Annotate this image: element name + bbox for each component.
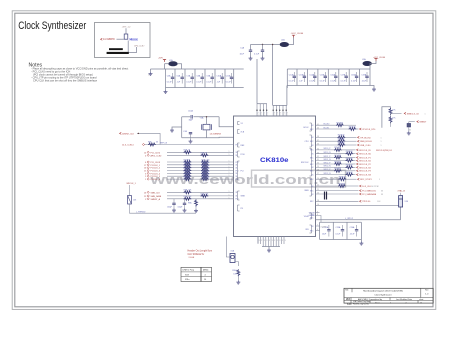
svg-text:X 48M: X 48M — [321, 226, 327, 228]
svg-text:3: 3 — [269, 240, 270, 242]
svg-text:BCLK1: BCLK1 — [324, 127, 330, 129]
ground — [261, 57, 265, 61]
svg-text:SRCCLK_N2: SRCCLK_N2 — [359, 167, 372, 169]
ground — [172, 209, 176, 213]
wire (down to U1A VDD bus) — [272, 45, 274, 106]
wire (bank column 2) — [296, 69, 298, 86]
svg-text:1: 1 — [229, 175, 230, 177]
svg-text:14: 14 — [144, 152, 146, 154]
wire (PCICLK_6 to U1A) — [167, 178, 234, 180]
svg-text:BCLK0: BCLK0 — [324, 124, 330, 126]
wire — [409, 121, 415, 123]
bar (legend thick trace A) — [109, 48, 123, 50]
svg-text:PCICLK_1: PCICLK_1 — [151, 165, 161, 167]
svg-text:1: 1 — [229, 151, 230, 153]
svg-text:6: 6 — [317, 229, 318, 231]
svg-text:SMBDT_A: SMBDT_A — [151, 198, 161, 201]
svg-text:7: 7 — [317, 225, 318, 227]
svg-text:1: 1 — [229, 178, 230, 180]
svg-text:GND48: GND48 — [309, 215, 315, 217]
svg-text:Clock Synthesizer: Clock Synthesizer — [374, 293, 391, 296]
svg-text:CPU CLK that can be shut off t: CPU CLK that can be shut off thru the SM… — [33, 78, 98, 82]
svg-text:WFCLK_1: WFCLK_1 — [127, 183, 137, 185]
watermark box — [252, 170, 346, 187]
power flag — [163, 60, 166, 62]
node SRCCLK_P2 — [357, 163, 359, 165]
svg-text:4: 4 — [261, 115, 262, 117]
U1A VDD top bus A — [257, 103, 267, 105]
ground (bank left) — [150, 69, 152, 72]
svg-text:100pF: 100pF — [178, 206, 183, 208]
node USB_CLK0 — [358, 144, 360, 146]
U1A top pin 6 — [276, 105, 278, 116]
svg-text:0.1uF: 0.1uF — [289, 80, 295, 82]
svg-text:1: 1 — [280, 115, 281, 117]
node 14MHZ_CLK — [120, 132, 122, 134]
svg-text:0.1uF: 0.1uF — [226, 81, 232, 83]
svg-text:SRC3_P: SRC3_P — [324, 169, 332, 171]
junction — [262, 44, 263, 45]
U1A top pin 1 — [256, 104, 258, 116]
wire — [145, 144, 234, 146]
power flag — [292, 35, 295, 37]
ground — [408, 127, 410, 131]
wire (bank column 6) — [338, 69, 340, 86]
svg-text:SRC0_P: SRC0_P — [324, 148, 332, 150]
svg-text:XL: XL — [236, 168, 238, 170]
svg-text:Rev: Rev — [425, 290, 428, 292]
wire — [356, 128, 359, 130]
svg-text:17: 17 — [144, 165, 146, 167]
wire (crystal loop top) — [182, 116, 191, 118]
svg-text:USB_CLK0: USB_CLK0 — [360, 145, 371, 147]
svg-text:3: 3 — [266, 240, 267, 242]
svg-text:XL: XL — [236, 152, 238, 154]
svg-text:1: 1 — [229, 195, 230, 197]
U1A pin 34 (right) — [316, 149, 335, 151]
svg-text:4: 4 — [145, 155, 146, 157]
wire — [400, 193, 402, 196]
wire — [390, 122, 392, 127]
U1A pin GND48 — [316, 216, 322, 223]
wire (bank column 9) — [369, 69, 371, 86]
U1A bottom pin 11 — [283, 237, 285, 245]
svg-text:1: 1 — [274, 115, 275, 117]
svg-text:0.1uF: 0.1uF — [206, 81, 212, 83]
svg-text:1: 1 — [229, 163, 230, 165]
svg-text:sheet: sheet — [419, 298, 424, 301]
capacitor C3A — [173, 199, 175, 203]
capacitor C25A — [408, 122, 410, 124]
wire (PCICLK_4 to U1A) — [167, 172, 234, 174]
wire (VDD feed right) — [286, 86, 288, 106]
svg-text:SRC2_N: SRC2_N — [324, 166, 332, 168]
svg-text:3: 3 — [274, 240, 275, 242]
svg-text:Fastest_City (XXX): Fastest_City (XXX) — [353, 303, 369, 306]
svg-text:+VCC_CLK66: +VCC_CLK66 — [373, 57, 385, 59]
svg-text:3: 3 — [145, 173, 146, 175]
op IC U1A CK810e body — [234, 116, 316, 237]
node SRCCLK_P1 — [357, 157, 359, 159]
U1A pin 33 (right) — [316, 153, 346, 155]
svg-text:1: 1 — [425, 113, 426, 115]
svg-text:1: 1 — [229, 166, 230, 168]
U1A bottom pin 10 — [280, 237, 282, 245]
U1A pin 27 (right) — [316, 174, 346, 176]
svg-text:0.1uF: 0.1uF — [351, 80, 357, 82]
U1A VDD top bus B — [273, 104, 287, 106]
svg-text:SMB_CLK: SMB_CLK — [151, 192, 161, 194]
svg-text:3: 3 — [285, 240, 286, 242]
node 14.318MHz — [101, 38, 103, 40]
svg-text:32: 32 — [317, 156, 319, 158]
svg-text:PCICLK_3: PCICLK_3 — [151, 171, 161, 173]
svg-text:1: 1 — [229, 154, 230, 156]
svg-text:ITPCLK0: ITPCLK0 — [362, 201, 371, 203]
svg-text:4: 4 — [390, 302, 391, 304]
svg-text:15: 15 — [420, 302, 422, 304]
node ITPCLK — [316, 200, 359, 202]
wire (column 1) — [319, 222, 321, 239]
U1A bottom pin 6 — [270, 237, 272, 247]
svg-text:25: 25 — [144, 196, 146, 198]
svg-text:SRCCLK_N0: SRCCLK_N0 — [359, 154, 372, 156]
svg-text:14.3_CLK14: 14.3_CLK14 — [122, 144, 134, 146]
wire (14MHz link) — [137, 133, 160, 144]
wire (bank column 4) — [194, 69, 196, 88]
capacitor C7A (shunt) — [190, 134, 192, 138]
U1A pin group PCI0 (left) — [238, 151, 240, 157]
wire — [130, 204, 197, 213]
wire — [353, 174, 356, 176]
svg-text:2: 2 — [145, 176, 146, 178]
svg-text:C10A: C10A — [188, 110, 193, 113]
wire — [391, 112, 402, 114]
U1A pin 38 (right) — [316, 136, 338, 138]
wire — [125, 28, 127, 34]
svg-text:1: 1 — [277, 115, 278, 117]
U1A bottom pin 8 — [275, 237, 277, 247]
svg-text:XL: XL — [236, 196, 238, 198]
wire (bank column 7) — [224, 69, 226, 88]
wire (crystal loop left) — [181, 117, 183, 138]
svg-text:VIA: VIA — [346, 299, 350, 301]
svg-text:0.1uF: 0.1uF — [320, 80, 326, 82]
wire — [390, 113, 392, 116]
svg-text:33: 33 — [381, 191, 383, 193]
svg-text:PCI_CLKF: PCI_CLKF — [151, 162, 161, 164]
svg-text:9: 9 — [317, 211, 318, 213]
svg-text:BCLK: BCLK — [304, 127, 310, 129]
wire (U1A to X2A) — [257, 237, 259, 244]
svg-text:0.1uF: 0.1uF — [309, 80, 315, 82]
U1A pin 24 (right) — [316, 178, 339, 180]
svg-text:SMBDT: SMBDT — [419, 122, 427, 124]
svg-text:SRCCLK_P2: SRCCLK_P2 — [359, 164, 372, 166]
svg-text:SRC2_P: SRC2_P — [324, 162, 332, 164]
svg-text:15: 15 — [144, 171, 146, 173]
wire — [237, 276, 239, 280]
wire (OSC to XTAL_B) — [316, 204, 401, 206]
svg-text:41: 41 — [317, 124, 319, 126]
U1A pin 32 (right) — [316, 157, 335, 159]
wire (crystal loop right) — [219, 117, 233, 127]
svg-text:PCI0: PCI0 — [241, 154, 245, 156]
U1A bottom pin 2 — [260, 237, 262, 245]
svg-text:CK810e: CK810e — [260, 157, 289, 164]
U1A top pin 5 — [272, 105, 274, 116]
wire — [341, 170, 356, 172]
svg-text:8: 8 — [317, 214, 318, 216]
svg-text:5: 5 — [145, 199, 146, 201]
svg-text:SRCCLK_N1: SRCCLK_N1 — [359, 161, 372, 163]
U1A top pin 4 — [266, 104, 268, 116]
sheet inner border — [15, 13, 433, 307]
U1A top pin 8 — [282, 105, 284, 116]
ground — [236, 281, 240, 285]
svg-text:XXX: XXX — [185, 274, 190, 276]
wire (bank column 5) — [204, 69, 206, 88]
svg-text:CPUCLK_DP0: CPUCLK_DP0 — [362, 129, 376, 131]
wire — [353, 166, 356, 168]
svg-text:APCI_CLK0: APCI_CLK0 — [151, 154, 163, 157]
wire (PCICLK_1 to U1A) — [167, 164, 234, 166]
wire — [345, 185, 359, 187]
svg-text:SRC3_N: SRC3_N — [324, 173, 332, 175]
svg-text:4: 4 — [267, 115, 268, 117]
ground — [183, 209, 187, 213]
U1A pin 28 (right) — [316, 170, 335, 172]
wire (bank column 2) — [174, 69, 176, 88]
node 14.3_CLK — [360, 185, 362, 187]
wire — [316, 225, 320, 227]
wire (column 3) — [346, 222, 348, 239]
node SMB_BCLK0 — [358, 140, 360, 142]
svg-text:3: 3 — [279, 240, 280, 242]
wire (bank column 4) — [317, 69, 319, 86]
ground (bank bottom) — [165, 88, 167, 91]
svg-text:4: 4 — [264, 115, 265, 117]
U1A pin group SMB (left) — [238, 191, 240, 200]
U1A bottom pin 1 — [257, 237, 259, 245]
wire L_3PI3.2 — [316, 219, 401, 221]
svg-text:3: 3 — [272, 240, 273, 242]
node SRCCLK_P0 — [357, 149, 359, 151]
svg-text:1: 1 — [229, 169, 230, 171]
U1A pin 22 (right) — [316, 185, 339, 187]
U1A pin group XLB (left) — [238, 130, 240, 134]
wire (bank column 1) — [286, 69, 288, 86]
left decoupling bank bus — [151, 68, 244, 70]
wire — [128, 41, 136, 53]
U1A pin 31 (right) — [316, 160, 346, 162]
svg-text:1: 1 — [379, 179, 380, 181]
table (clock frequencies) — [181, 267, 212, 281]
bar (legend thick trace B) — [107, 52, 129, 54]
U1A pin group REF (left) — [238, 143, 240, 147]
U1A pin 29 (right) — [316, 166, 346, 168]
svg-text:SMB_DATA: SMB_DATA — [151, 195, 162, 198]
U1A pin group VD48 (right) — [310, 213, 312, 219]
svg-text:SRCCLK: SRCCLK — [301, 162, 309, 164]
wire — [289, 38, 294, 45]
svg-text:3: 3 — [261, 240, 262, 242]
wire — [341, 149, 356, 151]
U1A bottom pin 7 — [273, 237, 275, 247]
svg-text:14MHZ_CLK: 14MHZ_CLK — [122, 133, 135, 135]
svg-text:L_3PI3.2: L_3PI3.2 — [345, 218, 354, 220]
svg-text:40: 40 — [317, 128, 319, 130]
svg-text:1: 1 — [145, 179, 146, 181]
svg-text:X1: X1 — [241, 123, 243, 125]
svg-text:4: 4 — [258, 115, 259, 117]
svg-text:0.1uF: 0.1uF — [196, 81, 202, 83]
svg-text:3: 3 — [259, 240, 260, 242]
svg-text:SRC1_N: SRC1_N — [324, 159, 332, 161]
ground (left stub) — [172, 127, 182, 129]
node +VCC_CLK66 — [374, 59, 377, 61]
48MHz cap bank bus — [320, 221, 362, 223]
svg-text:24: 24 — [317, 178, 319, 180]
svg-text:34: 34 — [317, 149, 319, 151]
ground — [249, 57, 253, 61]
svg-text:33: 33 — [381, 194, 383, 196]
svg-text:1: 1 — [381, 137, 382, 139]
wire — [341, 163, 356, 165]
capacitor C10A (series) — [191, 115, 192, 119]
ground (right bank) — [370, 86, 374, 88]
wire (VDD feed left) — [256, 59, 258, 104]
svg-text:PCI_SMBCLK0: PCI_SMBCLK0 — [362, 191, 377, 193]
svg-text:1: 1 — [229, 172, 230, 174]
svg-text:Y2A: Y2A — [200, 116, 204, 119]
wire (PCICLK_3 to U1A) — [167, 170, 234, 172]
svg-text:PCICLK_5: PCICLK_5 — [151, 176, 161, 178]
wire — [353, 160, 356, 162]
wire — [165, 63, 169, 65]
svg-text:22: 22 — [317, 185, 319, 187]
svg-text:SRCCLK_P0: SRCCLK_P0 — [359, 150, 372, 152]
U1A bottom pin 3 — [262, 237, 264, 247]
svg-text:Clock Synthesizer: Clock Synthesizer — [18, 20, 86, 32]
svg-text:38: 38 — [317, 136, 319, 138]
capacitor C4A — [184, 199, 186, 203]
svg-text:Hxxx: Hxxx — [130, 38, 138, 42]
svg-text:3: 3 — [282, 240, 283, 242]
ground — [190, 138, 192, 140]
svg-text:REFCLK: REFCLK — [160, 143, 168, 145]
svg-text:SRCCLK_N3: SRCCLK_N3 — [359, 175, 372, 177]
node SRCCLK_N0 — [357, 153, 359, 155]
wire (bank column 1) — [165, 69, 167, 88]
svg-text:+VTT_1.2: +VTT_1.2 — [122, 27, 132, 29]
svg-text:3: 3 — [264, 240, 265, 242]
resistor R8A (pulldown) — [195, 200, 198, 207]
svg-text:C23A: C23A — [336, 226, 341, 229]
U1A pin group CPU (right) — [310, 135, 312, 147]
svg-text:30: 30 — [317, 163, 319, 165]
svg-text:PCICLK_2: PCICLK_2 — [151, 168, 161, 170]
bus entry marks — [325, 192, 327, 200]
svg-text:SMBCLK_CK: SMBCLK_CK — [407, 113, 420, 115]
svg-text:K4b: K4b — [347, 303, 352, 306]
svg-text:0.1uF: 0.1uF — [330, 80, 336, 82]
ground (U1A bottom) — [268, 247, 270, 249]
U1A pin group X1 (left) — [238, 122, 240, 125]
svg-text:100pF: 100pF — [167, 206, 172, 208]
U1A pin group SRCCLK (right) — [310, 149, 312, 177]
wire (bank column 7) — [348, 69, 350, 86]
wire (PCI_CLK0 to U1A) — [167, 151, 234, 153]
svg-text:SRC1_P: SRC1_P — [324, 156, 332, 158]
wire — [206, 117, 208, 125]
wire (bank column 6) — [214, 69, 216, 88]
svg-text:SRCCLK_P3: SRCCLK_P3 — [359, 171, 372, 173]
svg-text:0.1uF: 0.1uF — [254, 53, 260, 55]
svg-text:ITP_BCLK0: ITP_BCLK0 — [360, 137, 371, 139]
svg-text:0.1uF: 0.1uF — [167, 81, 173, 83]
U1A pin group BCLK (right) — [310, 123, 312, 131]
svg-text:37: 37 — [317, 140, 319, 142]
node SRCCLK_N1 — [357, 160, 359, 162]
U1A GND bottom bus — [262, 246, 280, 248]
U1A pin 36 (right) — [316, 144, 338, 146]
title block dividers — [344, 288, 433, 303]
U1A pin VDD48 — [316, 212, 320, 214]
resistor R1 (legend pull-up) — [124, 34, 128, 39]
wire — [251, 44, 281, 46]
ground — [194, 209, 198, 213]
svg-text:CPU_CLK#: CPU_CLK# — [134, 45, 145, 47]
U1A pin group PCI (left) — [238, 161, 240, 180]
svg-text:Title: Title — [345, 289, 348, 292]
wire (SMBDT_A to U1A) — [167, 198, 234, 200]
svg-text:16: 16 — [144, 168, 146, 170]
U1A bottom pin 4 — [265, 237, 267, 247]
wire (bank column 3) — [184, 69, 186, 88]
svg-text:18: 18 — [317, 200, 319, 202]
U1A bottom pin 9 — [278, 237, 280, 247]
svg-text:31: 31 — [317, 159, 319, 161]
sheet outer border — [12, 11, 436, 310]
node SRC_STOP# — [358, 178, 360, 180]
svg-text:+3VS: +3VS — [158, 58, 163, 60]
U1A pin 37 (right) — [316, 140, 338, 142]
svg-text:0.1uF: 0.1uF — [336, 234, 342, 236]
svg-text:Sheet: Sheet — [375, 301, 380, 304]
svg-text:PCI: PCI — [241, 170, 245, 172]
wire — [235, 262, 238, 267]
svg-text:XL: XL — [236, 155, 238, 157]
svg-text:XXIn: XXIn — [185, 279, 189, 281]
wire (SMB loop) — [382, 107, 391, 128]
node PCI_SMBDATA — [316, 193, 359, 195]
svg-text:1: 1 — [229, 197, 230, 199]
U1A top pin 2 — [259, 104, 261, 116]
svg-text:0.1uF: 0.1uF — [186, 81, 192, 83]
svg-text:.01uF: .01uF — [350, 234, 356, 236]
ground (cap bank) — [360, 240, 362, 242]
svg-text:14.318MHz: 14.318MHz — [103, 39, 116, 41]
U1A pin 30 (right) — [316, 163, 335, 165]
svg-text:10: 10 — [317, 204, 319, 206]
wire — [129, 185, 131, 196]
svg-text:33: 33 — [156, 142, 158, 144]
svg-text:.01uF: .01uF — [361, 80, 367, 82]
svg-text:CLK SINGLE 5v: CLK SINGLE 5v — [188, 254, 205, 256]
svg-text:20: 20 — [317, 193, 319, 195]
node CPUCLK_DP0 — [360, 128, 362, 130]
